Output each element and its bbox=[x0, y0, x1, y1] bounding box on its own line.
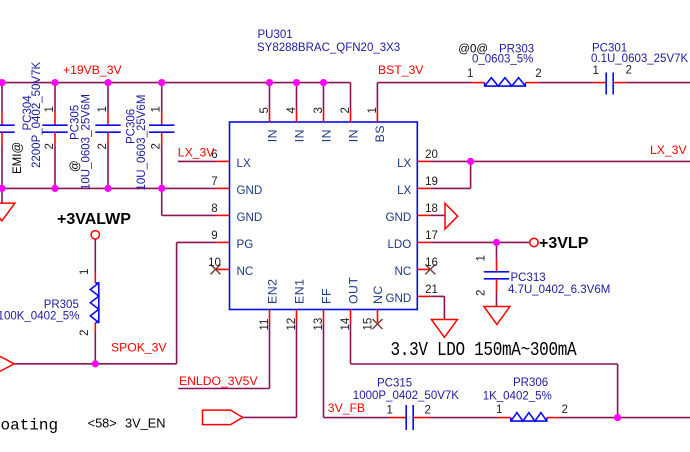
capacitor PC301 bbox=[591, 43, 689, 95]
svg-text:18: 18 bbox=[425, 203, 438, 215]
svg-text:GND: GND bbox=[386, 211, 412, 224]
svg-text:1K_0402_5%: 1K_0402_5% bbox=[483, 391, 552, 403]
svg-text:FF: FF bbox=[319, 288, 333, 304]
svg-text:12: 12 bbox=[286, 318, 298, 331]
svg-text:19: 19 bbox=[425, 176, 438, 188]
svg-text:3: 3 bbox=[313, 107, 325, 113]
svg-text:+19VB_3V: +19VB_3V bbox=[63, 63, 122, 77]
pin LX 6 / node LX_3V bbox=[178, 145, 251, 170]
capacitor PC315 bbox=[353, 378, 459, 431]
svg-text:NC: NC bbox=[371, 285, 385, 304]
pin BS 1 / wire BST_3V bbox=[367, 63, 472, 142]
off-page connector SPOK_3V bbox=[0, 357, 14, 371]
pin NC 16 bbox=[395, 257, 438, 278]
svg-text:3V_EN: 3V_EN bbox=[125, 416, 166, 431]
svg-text:@: @ bbox=[70, 160, 82, 172]
wire BST right bbox=[626, 82, 690, 84]
svg-text:BS: BS bbox=[373, 125, 387, 142]
svg-text:oating: oating bbox=[1, 416, 59, 434]
svg-text:20: 20 bbox=[425, 149, 438, 161]
svg-text:SY8288BRAC_QFN20_3X3: SY8288BRAC_QFN20_3X3 bbox=[257, 42, 400, 54]
svg-text:GND: GND bbox=[386, 292, 412, 305]
svg-text:0.1U_0603_25V7K: 0.1U_0603_25V7K bbox=[591, 53, 689, 65]
wire +19VB_3V rail bbox=[0, 82, 351, 84]
pin GND 21 / ground bbox=[386, 284, 458, 337]
svg-text:PR306: PR306 bbox=[513, 377, 548, 389]
svg-text:14: 14 bbox=[340, 317, 352, 330]
svg-text:1: 1 bbox=[593, 65, 599, 77]
ground under PC313 bbox=[484, 307, 510, 325]
pin LX 20 / wire LX_3V right bbox=[397, 143, 690, 170]
svg-text:EMI@: EMI@ bbox=[12, 142, 24, 174]
svg-text:PR305: PR305 bbox=[44, 299, 79, 311]
svg-text:7: 7 bbox=[211, 176, 217, 188]
svg-text:8: 8 bbox=[211, 203, 217, 215]
pin FF 13 / wire 3V_FB bbox=[313, 288, 389, 418]
svg-text:2: 2 bbox=[562, 404, 568, 416]
svg-text:NC: NC bbox=[237, 265, 254, 278]
svg-text:13: 13 bbox=[313, 318, 325, 331]
svg-text:4: 4 bbox=[286, 107, 298, 114]
svg-text:NC: NC bbox=[395, 265, 412, 278]
pin EN1 12 / wire 3V_EN bbox=[243, 279, 307, 418]
wire GND rail bottom bbox=[0, 187, 217, 189]
svg-text:11: 11 bbox=[259, 319, 271, 331]
junction OUT / 3V_FB bbox=[614, 414, 621, 421]
resistor PR305 / node +3VALWP bbox=[0, 211, 131, 364]
IC PU301 SY8288BRAC_QFN20_3X3 body bbox=[230, 122, 418, 310]
pin NC 10 bbox=[208, 257, 253, 278]
svg-text:<58>: <58> bbox=[88, 416, 117, 431]
capacitor PC306 bbox=[125, 83, 174, 191]
svg-text:PC315: PC315 bbox=[377, 378, 412, 390]
pin GND 18 / ground arrow bbox=[386, 203, 458, 229]
svg-text:OUT: OUT bbox=[346, 277, 360, 304]
svg-text:2: 2 bbox=[151, 143, 163, 149]
svg-text:10U_0603_25V6M: 10U_0603_25V6M bbox=[80, 94, 92, 190]
pin NC 15 bbox=[363, 285, 386, 330]
svg-text:1: 1 bbox=[476, 255, 488, 261]
svg-text:LX_3V: LX_3V bbox=[650, 143, 687, 157]
svg-text:2: 2 bbox=[535, 68, 541, 80]
svg-text:1: 1 bbox=[97, 106, 109, 112]
svg-text:4.7U_0402_6.3V6M: 4.7U_0402_6.3V6M bbox=[508, 284, 610, 296]
svg-text:ENLDO_3V5V: ENLDO_3V5V bbox=[179, 374, 258, 388]
wire BST mid bbox=[538, 82, 593, 84]
svg-text:21: 21 bbox=[425, 284, 438, 296]
wire 3V_FB mid bbox=[430, 417, 498, 419]
pin IN 2 bbox=[340, 83, 360, 143]
svg-text:SPOK_3V: SPOK_3V bbox=[111, 341, 167, 355]
svg-text:15: 15 bbox=[363, 318, 375, 331]
svg-text:+3VALWP: +3VALWP bbox=[57, 211, 131, 228]
svg-text:2: 2 bbox=[476, 290, 488, 296]
svg-text:LX: LX bbox=[397, 157, 411, 170]
svg-text:1: 1 bbox=[44, 106, 56, 112]
svg-text:10: 10 bbox=[208, 257, 221, 269]
svg-text:5: 5 bbox=[259, 107, 271, 113]
pin GND 7 bbox=[211, 176, 262, 197]
svg-text:1: 1 bbox=[367, 107, 379, 113]
svg-text:1: 1 bbox=[79, 269, 91, 275]
svg-text:1: 1 bbox=[151, 106, 163, 112]
pin IN 3 bbox=[313, 83, 333, 143]
wire gnd stub bbox=[1, 188, 3, 203]
svg-text:2: 2 bbox=[340, 107, 352, 113]
svg-text:2: 2 bbox=[626, 65, 632, 77]
capacitor C0 (left edge, unlabeled) bbox=[0, 83, 15, 189]
pin GND 8 / wire to gnd rail bbox=[162, 188, 263, 224]
svg-text:10U_0603_25V6M: 10U_0603_25V6M bbox=[136, 95, 148, 191]
svg-text:LX: LX bbox=[397, 184, 411, 197]
wire 3V_FB right bbox=[560, 417, 690, 419]
pin OUT 14 / wire OUT feedback bbox=[340, 277, 618, 418]
ground bbox=[0, 203, 15, 221]
pin LDO 17 / node +3VLP bbox=[387, 230, 588, 252]
svg-text:2200P_0402_50V7K: 2200P_0402_50V7K bbox=[31, 62, 43, 168]
svg-text:LX: LX bbox=[237, 157, 251, 170]
capacitor PC305 bbox=[70, 83, 121, 190]
svg-text:2: 2 bbox=[79, 330, 91, 336]
svg-text:GND: GND bbox=[237, 211, 263, 224]
svg-text:EN2: EN2 bbox=[265, 279, 279, 304]
svg-text:3V_FB: 3V_FB bbox=[328, 401, 365, 415]
svg-text:1: 1 bbox=[496, 404, 502, 416]
junction LDO / PC313 bbox=[493, 239, 500, 246]
svg-text:0_0603_5%: 0_0603_5% bbox=[472, 53, 533, 65]
svg-text:IN: IN bbox=[346, 129, 360, 142]
svg-text:16: 16 bbox=[425, 257, 438, 269]
svg-text:LX_3V: LX_3V bbox=[178, 145, 215, 159]
capacitor PC313 / node +3VLP branch bbox=[476, 242, 611, 306]
svg-text:2: 2 bbox=[425, 404, 431, 416]
svg-text:1: 1 bbox=[387, 404, 393, 416]
svg-text:2: 2 bbox=[97, 143, 109, 149]
svg-text:1: 1 bbox=[467, 68, 473, 80]
svg-text:100K_0402_5%: 100K_0402_5% bbox=[0, 311, 79, 323]
svg-text:PU301: PU301 bbox=[258, 29, 293, 41]
svg-text:PG: PG bbox=[237, 238, 254, 251]
pin PG 9 / wire SPOK_3V bbox=[14, 230, 253, 364]
svg-text:IN: IN bbox=[265, 129, 279, 142]
pin LX 19 bbox=[397, 161, 470, 197]
resistor PR303 bbox=[458, 43, 541, 86]
off-page connector 3V_EN bbox=[203, 410, 243, 425]
svg-text:GND: GND bbox=[237, 184, 263, 197]
svg-text:IN: IN bbox=[319, 129, 333, 142]
junction dots GND rail bbox=[0, 185, 165, 192]
svg-text:LDO: LDO bbox=[387, 238, 411, 251]
svg-text:PC313: PC313 bbox=[511, 272, 546, 284]
svg-text:BST_3V: BST_3V bbox=[378, 63, 424, 77]
svg-text:1000P_0402_50V7K: 1000P_0402_50V7K bbox=[353, 390, 459, 402]
pin IN 4 bbox=[286, 83, 306, 143]
svg-text:9: 9 bbox=[211, 230, 217, 242]
pin IN 5 bbox=[259, 83, 279, 143]
svg-text:EN1: EN1 bbox=[292, 279, 306, 304]
resistor PR306 bbox=[483, 377, 568, 421]
junction SPOK_3V / PR305 bbox=[92, 360, 99, 367]
junction dots +19VB_3V rail bbox=[0, 79, 327, 86]
svg-text:2: 2 bbox=[44, 143, 56, 149]
capacitor PC304 bbox=[12, 62, 68, 189]
svg-text:IN: IN bbox=[292, 129, 306, 142]
pin EN2 11 / wire ENLDO_3V5V bbox=[178, 279, 279, 389]
svg-text:17: 17 bbox=[425, 230, 438, 242]
svg-text:3.3V LDO 150mA~300mA: 3.3V LDO 150mA~300mA bbox=[391, 340, 578, 362]
note 3.3V LDO bbox=[391, 340, 578, 362]
junction LX pins 20/19 bbox=[467, 158, 474, 165]
svg-text:+3VLP: +3VLP bbox=[539, 235, 589, 252]
